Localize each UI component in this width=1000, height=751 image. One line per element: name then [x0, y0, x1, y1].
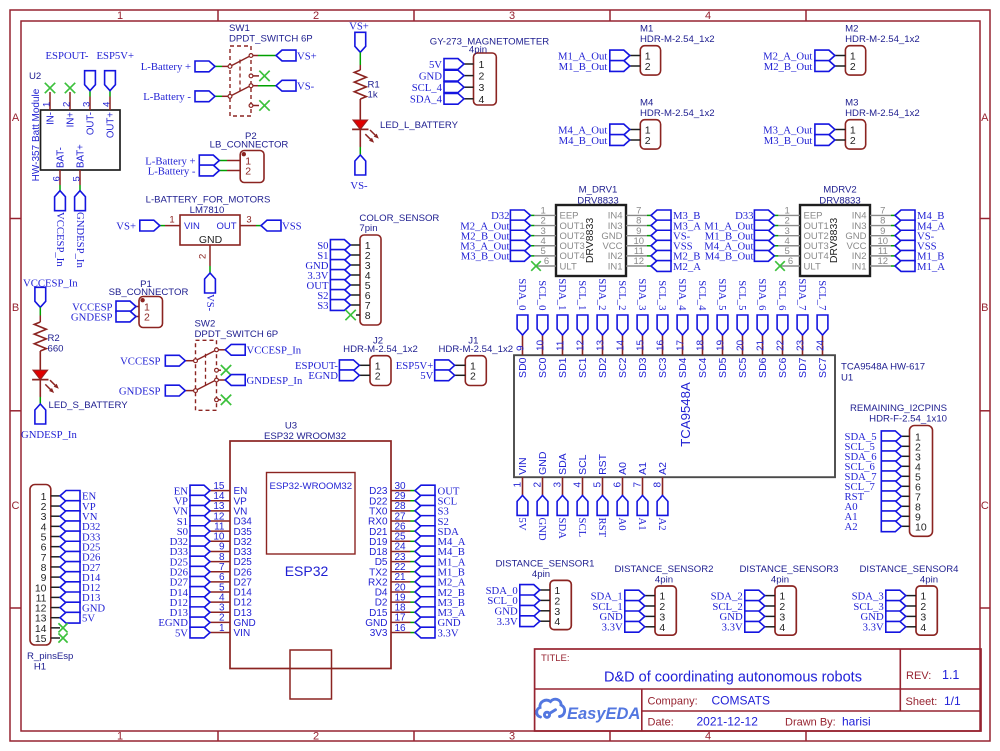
netport VP (U3 left): [174, 495, 210, 507]
svg-text:DRV8833: DRV8833: [819, 196, 860, 207]
svg-text:SCL: SCL: [576, 518, 588, 538]
COLOR_SENSOR pin 2: [350, 250, 370, 262]
U3 pin 9 D33: [210, 542, 252, 558]
svg-text:3.3V: 3.3V: [438, 627, 459, 639]
svg-text:MDRV2: MDRV2: [823, 185, 856, 196]
netport EN (H1): [60, 491, 97, 503]
U1 pin 20 SC5: [736, 335, 750, 378]
svg-text:RST: RST: [596, 518, 608, 538]
svg-text:DRV8833: DRV8833: [584, 218, 596, 263]
netport SCL (U1 bottom): [576, 495, 588, 537]
connector COLOR_SENSOR body: [359, 213, 439, 325]
svg-text:HDR-M-2.54_1x2: HDR-M-2.54_1x2: [845, 34, 920, 45]
svg-text:2: 2: [479, 71, 485, 83]
svg-text:4pin: 4pin: [532, 569, 550, 580]
svg-text:ESP32: ESP32: [285, 563, 329, 579]
I2CPINS pin 3: [901, 451, 921, 463]
svg-text:VCCESP_In: VCCESP_In: [54, 212, 66, 267]
driver M_DRV1 DRV8833 body: [556, 185, 626, 276]
DISTANCE_SENSOR1 pin 1: [540, 585, 561, 597]
netport VSS (MDRV2): [895, 240, 937, 252]
regulator U? LM7810 body: [146, 194, 271, 246]
U1 pin 1 VIN: [513, 457, 530, 495]
svg-text:U1: U1: [841, 373, 853, 384]
svg-text:10: 10: [915, 521, 927, 533]
DISTANCE_SENSOR1 pin 3: [540, 606, 561, 618]
H1 pin 14: [35, 623, 60, 635]
netport S3 (COLOR_SENSOR): [317, 300, 350, 312]
svg-text:DISTANCE_SENSOR1: DISTANCE_SENSOR1: [496, 558, 595, 569]
P2 pin 2: [227, 166, 251, 178]
U3 pin 12 D34: [210, 511, 252, 527]
netport D26 (H1): [60, 551, 101, 563]
MDRV2 pin 1 EEP: [774, 206, 822, 222]
svg-text:1: 1: [117, 731, 123, 743]
svg-text:HDR-F-2.54_1x10: HDR-F-2.54_1x10: [869, 414, 947, 425]
H1 pin 12: [35, 603, 60, 615]
DISTANCE_SENSOR3 pin 3: [765, 611, 786, 623]
svg-text:23: 23: [796, 339, 807, 351]
M_DRV1 pin 6 ULT (nc): [536, 256, 577, 272]
netport VN (U3 left): [173, 505, 210, 517]
netport GND (DISTANCE_SENSOR1): [495, 605, 540, 617]
I2CPINS pin 8: [901, 501, 921, 513]
svg-text:GNDESP: GNDESP: [119, 385, 161, 397]
U3 pin 15 EN: [210, 481, 247, 497]
netport SCL_4 (GY-273): [412, 82, 464, 94]
netport D33 (MDRV2): [735, 210, 774, 222]
svg-text:L-Battery -: L-Battery -: [148, 165, 196, 177]
netport M1_A_Out (MDRV2): [704, 220, 774, 232]
M_DRV1 pin 4 OUT3: [530, 236, 584, 252]
svg-text:SCL_4: SCL_4: [696, 280, 708, 311]
svg-text:GNDESP_In: GNDESP_In: [247, 375, 303, 387]
H1 pin 1: [41, 491, 60, 503]
netport S2 (U3 right): [415, 516, 449, 528]
svg-text:6: 6: [613, 482, 624, 488]
svg-text:HDR-M-2.54_1x2: HDR-M-2.54_1x2: [640, 34, 715, 45]
netport SDA_5 (U1 top): [716, 278, 728, 335]
svg-text:3: 3: [509, 10, 515, 22]
svg-text:U2: U2: [29, 71, 41, 82]
U1 pin 5 RST: [593, 453, 610, 495]
connector P2 LB_CONNECTOR body: [210, 131, 289, 183]
svg-text:DPDT_SWITCH 6P: DPDT_SWITCH 6P: [195, 329, 279, 340]
netport 3.3V (DISTANCE_SENSOR2): [602, 621, 645, 633]
MDRV2 pin 9 GND: [845, 226, 895, 242]
U1 pin 11 SD1: [556, 335, 570, 378]
svg-text:RST: RST: [597, 453, 609, 475]
netport VCCESP_In (from U2): [54, 191, 66, 268]
svg-text:GNDESP_In: GNDESP_In: [21, 429, 77, 441]
svg-text:Drawn By:: Drawn By:: [785, 717, 836, 729]
U1 pin 10 SC0: [536, 335, 550, 378]
H1 pin 7: [41, 552, 60, 564]
I2CPINS pin 5: [901, 471, 921, 483]
EasyEDA logo: [537, 699, 641, 723]
wire LED to GNDESP_In flag: [39, 380, 41, 404]
svg-text:3.3V: 3.3V: [863, 622, 884, 634]
LED LED_S_BATTERY: [32, 370, 128, 411]
svg-text:18: 18: [696, 339, 707, 351]
netport VCCESP_In (SW2 out): [225, 344, 302, 356]
svg-text:SC7: SC7: [817, 357, 829, 378]
svg-text:M3: M3: [845, 98, 858, 109]
M_DRV1 pin 11 IN2: [608, 246, 651, 262]
netport M1_B_Out (MDRV2): [705, 230, 775, 242]
svg-text:1k: 1k: [368, 90, 378, 101]
svg-text:12: 12: [576, 339, 587, 351]
netport D12 (H1): [60, 582, 100, 594]
header M4 HDR-M-2.54_1x2 body: [640, 98, 715, 150]
M2 pin 1: [835, 51, 856, 63]
U2 pin 2 IN+: [62, 92, 77, 127]
svg-text:OUT+: OUT+: [106, 112, 117, 138]
svg-text:ULT: ULT: [804, 261, 821, 272]
wire L-Battery+ to P2 pin1: [219, 160, 227, 162]
netport D27 (U3 left): [170, 576, 210, 588]
netport M2_B (U3 right): [415, 587, 465, 599]
MDRV2 pin 3 OUT2: [774, 226, 828, 242]
svg-text:SDA_0: SDA_0: [516, 278, 528, 310]
COLOR_SENSOR pin 6: [350, 290, 370, 302]
netport 5V (GY-273): [429, 59, 464, 71]
svg-text:4: 4: [920, 622, 926, 634]
svg-text:2: 2: [375, 370, 381, 382]
wire VS+ to LM7810 pin1: [160, 225, 165, 227]
netport SCL_0 (U1 top): [536, 280, 548, 335]
connector DISTANCE_SENSOR3 body: [740, 564, 839, 635]
svg-text:6: 6: [544, 256, 549, 267]
svg-text:SC5: SC5: [737, 357, 749, 378]
netport M2_A (M_DRV1): [651, 261, 701, 273]
connector DISTANCE_SENSOR1 body: [496, 558, 595, 629]
M_DRV1 pin 10 VCC: [602, 236, 651, 252]
U3 pin 29 D22: [369, 491, 415, 507]
svg-text:harisi: harisi: [842, 715, 871, 729]
M2 pin 2: [835, 61, 856, 73]
svg-text:1: 1: [513, 482, 524, 488]
svg-text:DRV8833: DRV8833: [577, 196, 618, 207]
U3 pin 22 TX2: [369, 562, 415, 578]
netport SDA_5 (I2CPINS): [845, 431, 902, 443]
netport OUT (U3 right): [415, 485, 460, 497]
svg-text:SDA: SDA: [556, 518, 568, 540]
svg-text:17: 17: [676, 339, 687, 351]
svg-text:22: 22: [776, 339, 787, 351]
U1 pin 8 A2: [653, 462, 670, 495]
svg-text:13: 13: [596, 339, 607, 351]
netport SDA_3 (U1 top): [636, 278, 648, 335]
svg-text:SCL_1: SCL_1: [576, 280, 588, 310]
netport GND (COLOR_SENSOR): [305, 260, 350, 272]
svg-text:HDR-M-2.54_1x2: HDR-M-2.54_1x2: [845, 108, 920, 119]
svg-text:4: 4: [573, 482, 584, 488]
netport SDA_1 (U1 top): [556, 278, 568, 335]
netport M2_A (U3 right): [415, 576, 466, 588]
M4 pin 2: [630, 135, 651, 147]
svg-text:Date:: Date:: [648, 717, 674, 729]
svg-text:L-Battery +: L-Battery +: [141, 61, 191, 73]
svg-text:SDA_4: SDA_4: [676, 278, 688, 311]
netport EGND (J2): [308, 370, 359, 382]
MDRV2 pin 7 IN4: [852, 206, 895, 222]
svg-text:D&D of coordinating autonomous: D&D of coordinating autonomous robots: [604, 670, 862, 686]
netport SDA_6 (U1 top): [756, 278, 768, 335]
U2 value label HW-357 Batt Module: [31, 88, 42, 181]
netport A2 (U1 bottom): [656, 495, 668, 530]
U3 pin 4 D12: [210, 592, 252, 608]
svg-text:OUT: OUT: [216, 221, 236, 232]
svg-text:L-BATTERY_FOR_MOTORS: L-BATTERY_FOR_MOTORS: [146, 194, 271, 205]
svg-text:REV:: REV:: [906, 670, 931, 682]
svg-text:A0: A0: [616, 518, 628, 531]
svg-text:3.3V: 3.3V: [497, 616, 518, 628]
U1 pin 7 A1: [633, 462, 650, 495]
netport A1 (I2CPINS): [845, 511, 902, 523]
P1 pin 1: [136, 302, 150, 314]
netport GND (H1): [60, 602, 105, 614]
netport M4_A_Out (M4): [558, 124, 630, 136]
COLOR_SENSOR pin 8: [356, 310, 371, 322]
netport D32 (H1): [60, 521, 100, 533]
COLOR_SENSOR pin 1: [350, 240, 370, 252]
svg-text:TCA9548A HW-617: TCA9548A HW-617: [841, 362, 925, 373]
svg-text:M2_A: M2_A: [673, 261, 701, 273]
I2CPINS pin 7: [901, 491, 921, 503]
svg-text:ESPOUT-: ESPOUT-: [46, 50, 89, 62]
netport SCL (U3 right): [415, 495, 457, 507]
svg-text:7: 7: [633, 482, 644, 488]
svg-text:VS+: VS+: [349, 21, 369, 33]
svg-text:L-Battery -: L-Battery -: [143, 91, 191, 103]
wire LM7810 pin2 to VS-: [209, 266, 211, 273]
wire U2 pin6 to VCCESP_In port: [59, 185, 61, 191]
netport VS- (R1 bottom): [350, 155, 368, 192]
svg-text:GND: GND: [537, 451, 549, 475]
U1 pin 22 SC6: [776, 335, 790, 378]
netport SDA_2 (DISTANCE_SENSOR3): [711, 590, 765, 602]
svg-text:BAT+: BAT+: [75, 144, 86, 168]
LM7810 pin 3 OUT: [240, 215, 256, 226]
P2 pin 1: [227, 156, 251, 168]
COLOR_SENSOR pin 7: [350, 300, 370, 312]
svg-text:SCL_7: SCL_7: [816, 280, 828, 311]
svg-text:2: 2: [198, 254, 209, 259]
svg-text:SD0: SD0: [517, 357, 529, 378]
ESP32 inner module box: [267, 473, 356, 555]
svg-text:VIN: VIN: [517, 457, 529, 475]
U2 pin 3 OUT-: [82, 97, 97, 136]
svg-text:2: 2: [850, 61, 856, 73]
header M3 HDR-M-2.54_1x2 body: [845, 98, 920, 150]
switch SW2 DPDT_SWITCH 6P: [194, 319, 279, 411]
wire U2 pin4 to ESP5V+ port: [109, 91, 111, 97]
DISTANCE_SENSOR2 pin 2: [645, 601, 666, 613]
netport VSS (LM7810): [261, 220, 302, 232]
svg-text:4: 4: [659, 622, 665, 634]
svg-text:M1: M1: [640, 24, 653, 35]
netport SDA_1 (DISTANCE_SENSOR2): [591, 590, 645, 602]
U1 pin 12 SC1: [576, 335, 590, 378]
netport GNDESP_In (R2 bottom): [21, 404, 77, 441]
netport M3_A_Out (M3): [763, 124, 835, 136]
svg-text:3: 3: [246, 215, 251, 226]
connector DISTANCE_SENSOR2 body: [615, 564, 714, 635]
svg-text:SCL_4: SCL_4: [412, 82, 443, 94]
netport M2_B_Out (M2): [764, 61, 835, 73]
netport SDA (U1 bottom): [556, 495, 568, 539]
U2 reference label: [29, 71, 41, 82]
netport D14 (H1): [60, 572, 101, 584]
U1 pin 15 SD3: [636, 335, 650, 378]
U3 pin 2 GND: [210, 613, 256, 629]
svg-text:10: 10: [536, 339, 547, 351]
netport 3.3V (DISTANCE_SENSOR1): [497, 616, 540, 628]
netport VN (H1): [60, 511, 98, 523]
DISTANCE_SENSOR4 pin 3: [906, 611, 927, 623]
svg-text:REMAINING_I2CPINS: REMAINING_I2CPINS: [850, 403, 947, 414]
netport M4_B_Out (MDRV2): [705, 250, 775, 262]
netport VCCESP_In (R2 top): [23, 278, 78, 308]
svg-text:M2: M2: [845, 24, 858, 35]
M1 pin 2: [630, 61, 651, 73]
H1 pin 9: [41, 572, 60, 584]
svg-text:VS-: VS-: [204, 294, 216, 312]
svg-text:SDA_7: SDA_7: [796, 278, 808, 311]
I2CPINS pin 2: [901, 441, 921, 453]
no-connect X SW1 throw: [259, 71, 269, 81]
svg-text:EGND: EGND: [308, 370, 338, 382]
netport RST (U1 bottom): [596, 495, 608, 537]
wire SW2 throw1 to VCCESP_In: [218, 349, 225, 351]
driver MDRV2 DRV8833 body: [800, 185, 870, 276]
netport M2_B (M_DRV1): [651, 250, 700, 262]
svg-text:8: 8: [653, 482, 664, 488]
U3 pin 18 D15: [369, 603, 415, 619]
netport SCL_1 (U1 top): [576, 280, 588, 335]
U1 pin 17 SD4: [676, 335, 690, 378]
netport A0 (I2CPINS): [845, 501, 902, 513]
svg-text:GNDESP: GNDESP: [71, 311, 113, 323]
U3 pin 24 D18: [369, 542, 415, 558]
svg-text:2: 2: [645, 61, 651, 73]
U1 pin 16 SC3: [656, 335, 670, 378]
U1 pin 21 SD6: [756, 335, 770, 378]
U1 pin 23 SD7: [796, 335, 810, 378]
U1 pin 13 SD2: [596, 335, 610, 378]
GY-273 pin 4: [464, 94, 485, 106]
svg-text:GNDESP_In: GNDESP_In: [74, 212, 86, 268]
H1 pin 11: [36, 592, 60, 604]
U3 pin 11 D35: [210, 521, 252, 537]
U2 pin 6 BAT-: [52, 147, 67, 185]
U3 pin 7 D26: [210, 562, 252, 578]
netport SCL_2 (U1 top): [616, 280, 628, 335]
netport D33 (U3 left): [170, 546, 210, 558]
H1 pin 6: [41, 542, 60, 554]
DISTANCE_SENSOR3 pin 2: [765, 601, 786, 613]
netport SCL_5 (I2CPINS): [845, 441, 902, 453]
DISTANCE_SENSOR2 pin 4: [645, 622, 666, 634]
DISTANCE_SENSOR3 pin 4: [765, 622, 786, 634]
U3 pin 30 D23: [369, 481, 415, 497]
svg-text:ESP32 WROOM32: ESP32 WROOM32: [264, 431, 346, 442]
netport 3.3V (DISTANCE_SENSOR4): [863, 621, 906, 633]
netport SDA_7 (I2CPINS): [845, 471, 902, 483]
svg-text:2: 2: [245, 166, 251, 178]
U3 pin 13 VN: [210, 501, 247, 517]
resistor R1 1k: [354, 70, 379, 101]
svg-text:SDA_5: SDA_5: [716, 278, 728, 310]
netport M1_A (MDRV2): [895, 261, 945, 273]
DISTANCE_SENSOR2 pin 1: [645, 591, 666, 603]
U2 pin 5 BAT+: [72, 144, 87, 185]
svg-text:1: 1: [42, 102, 53, 107]
svg-text:20: 20: [736, 339, 747, 351]
svg-text:SD1: SD1: [557, 357, 569, 378]
M_DRV1 pin 9 GND: [601, 226, 651, 242]
no-connect X SW1 throw2: [259, 100, 269, 110]
svg-text:M4_B_Out: M4_B_Out: [705, 251, 754, 263]
M4 pin 1: [630, 125, 651, 137]
svg-text:SD6: SD6: [757, 357, 769, 378]
wire LED to VS- flag: [359, 129, 361, 155]
U3 pin 27 RX0: [368, 511, 415, 527]
svg-text:SDA_4: SDA_4: [410, 94, 443, 106]
svg-text:1: 1: [117, 10, 123, 22]
svg-text:19: 19: [716, 339, 727, 351]
svg-text:M4: M4: [640, 98, 654, 109]
svg-text:14: 14: [616, 339, 627, 351]
netport M4_B (MDRV2): [895, 210, 944, 222]
COLOR_SENSOR pin 5: [350, 280, 370, 292]
svg-text:IN-: IN-: [46, 112, 57, 125]
U1 pin 2 GND: [533, 451, 550, 495]
svg-text:2: 2: [645, 135, 651, 147]
M_DRV1 pin 8 IN3: [608, 216, 651, 232]
svg-text:24: 24: [816, 339, 827, 351]
svg-text:15: 15: [636, 339, 647, 351]
netport VS+ (SW1 out): [276, 50, 317, 62]
svg-text:3V3: 3V3: [370, 628, 388, 639]
netport SCL_6 (I2CPINS): [845, 461, 902, 473]
MDRV2 pin 4 OUT3: [774, 236, 828, 252]
netport A0 (U1 bottom): [616, 495, 628, 530]
svg-text:SW1: SW1: [229, 23, 250, 34]
U3 pin 1 VIN: [210, 623, 250, 639]
netport D25 (H1): [60, 541, 100, 553]
I2CPINS pin 9: [901, 511, 921, 523]
netport EN (U3 left): [174, 485, 210, 497]
svg-text:12: 12: [878, 256, 889, 267]
U1 pin 19 SD5: [716, 335, 730, 378]
netport ESP5V+ (J1): [396, 360, 455, 372]
DISTANCE_SENSOR2 pin 3: [645, 611, 666, 623]
netport SCL_4 (U1 top): [696, 280, 708, 335]
netport GND (DISTANCE_SENSOR2): [600, 611, 645, 623]
no-connect X COLOR_SENSOR pin8: [345, 310, 355, 320]
svg-text:VCCESP_In: VCCESP_In: [23, 278, 78, 290]
wire VS+ flag to R1: [359, 52, 361, 70]
svg-text:A2: A2: [657, 462, 669, 475]
svg-text:3: 3: [509, 731, 515, 743]
netport A2 (I2CPINS): [845, 521, 902, 533]
netport M1_A (U3 right): [415, 556, 466, 568]
wire SW2 throw3 to GNDESP_In: [218, 379, 225, 381]
svg-text:SCL_5: SCL_5: [736, 280, 748, 310]
wire L-Battery- to P2 pin2: [219, 170, 227, 172]
